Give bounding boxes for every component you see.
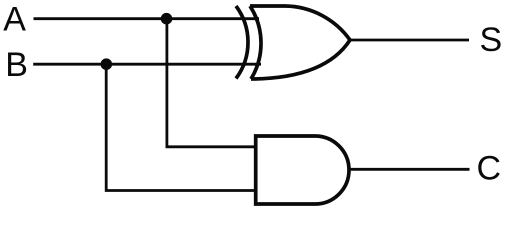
AND gate U2 body: [256, 136, 349, 204]
wire A (input A to XOR top input): [34, 17, 260, 20]
wire S (XOR output): [349, 39, 469, 42]
svg-text:A: A: [3, 1, 26, 39]
XOR gate U1 input curve (extra arc): [236, 6, 248, 79]
wire from B junction down to AND bottom input: [106, 64, 256, 190]
wire B (input B to XOR bottom input): [33, 63, 261, 66]
svg-text:S: S: [480, 21, 503, 59]
XOR gate U1 body: [250, 6, 350, 79]
junction dot on wire A: [161, 13, 173, 25]
wire C (AND output): [348, 168, 470, 171]
junction dot on wire B: [101, 58, 113, 70]
svg-text:C: C: [477, 149, 502, 187]
svg-text:B: B: [5, 46, 28, 84]
wire from A junction down to AND top input: [167, 19, 256, 147]
